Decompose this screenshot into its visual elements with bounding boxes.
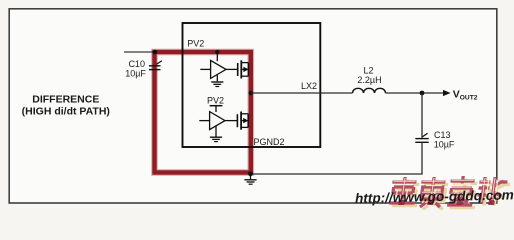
- node VOUT2 junction: [420, 91, 425, 96]
- svg-text:PV2: PV2: [207, 95, 224, 105]
- svg-text:(HIGH di/dt PATH): (HIGH di/dt PATH): [22, 105, 110, 117]
- capacitor C13: [415, 133, 428, 142]
- glyph highlights: [391, 178, 495, 202]
- ground (driver 1): [211, 74, 223, 86]
- watermark: [355, 176, 514, 210]
- IC box: [183, 23, 321, 147]
- wire LX2 to L2: [251, 92, 353, 94]
- node PV2 / C10 junction: [153, 50, 158, 55]
- svg-text:C13: C13: [434, 130, 451, 140]
- svg-text:2.2µH: 2.2µH: [357, 75, 381, 85]
- ground (driver 2): [210, 125, 222, 141]
- wire C13 to ground rail: [251, 142, 423, 174]
- ground (bottom rail): [248, 171, 253, 176]
- svg-text:OUT2: OUT2: [460, 94, 478, 101]
- svg-text:LX2: LX2: [301, 81, 317, 91]
- node LX2: [249, 91, 254, 96]
- capacitor C10: [149, 61, 162, 70]
- wire L2 to VOUT2: [386, 92, 444, 94]
- svg-text:V: V: [453, 88, 460, 100]
- glyph strokes: [389, 176, 508, 207]
- driver U1A (top): [200, 50, 226, 79]
- wire VOUT2 node to C13: [421, 93, 423, 139]
- inductor L2: [353, 88, 386, 93]
- svg-text:DIFFERENCE: DIFFERENCE: [32, 94, 99, 106]
- wire high di/dt loop (red highlight): [155, 52, 251, 173]
- transistor Q1 (high-side FET): [226, 60, 249, 78]
- transistor Q2 (low-side FET): [225, 112, 248, 130]
- svg-text:C10: C10: [128, 59, 145, 69]
- svg-text:PV2: PV2: [187, 38, 204, 48]
- driver U1B (bottom): [199, 112, 225, 130]
- wire input to PV2 node: [124, 51, 155, 53]
- svg-text:10µF: 10µF: [434, 139, 455, 149]
- glyph shadows: [392, 179, 511, 210]
- label VOUT2 with arrow: [443, 90, 451, 96]
- svg-text:10µF: 10µF: [125, 69, 146, 79]
- svg-text:PGND2: PGND2: [254, 137, 285, 147]
